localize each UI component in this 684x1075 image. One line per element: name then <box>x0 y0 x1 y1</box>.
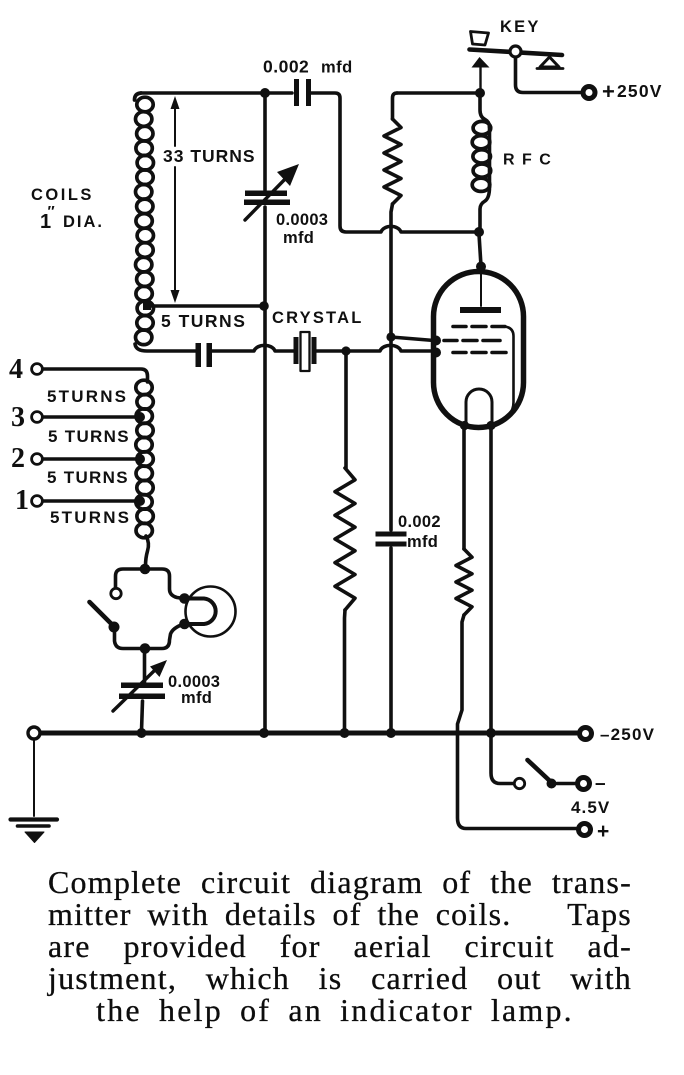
svg-text:4.5V: 4.5V <box>571 798 610 817</box>
svg-text:mfd: mfd <box>321 59 353 77</box>
svg-text:3: 3 <box>11 402 25 433</box>
svg-text:+: + <box>597 820 609 843</box>
svg-text:5 TURNS: 5 TURNS <box>47 468 129 487</box>
svg-text:mfd: mfd <box>407 533 438 551</box>
svg-text:CRYSTAL: CRYSTAL <box>272 309 363 327</box>
svg-text:–250V: –250V <box>600 725 655 744</box>
svg-text:5 TURNS: 5 TURNS <box>161 311 246 331</box>
svg-text:mfd: mfd <box>181 689 212 707</box>
svg-text:0.0003: 0.0003 <box>276 211 328 229</box>
svg-text:0.002: 0.002 <box>263 57 309 77</box>
svg-text:5TURNS: 5TURNS <box>50 508 131 527</box>
svg-text:″: ″ <box>48 203 55 220</box>
svg-text:–: – <box>595 774 606 795</box>
svg-text:DIA.: DIA. <box>63 213 104 231</box>
svg-text:250V: 250V <box>617 81 663 101</box>
svg-text:1: 1 <box>15 485 29 516</box>
svg-text:R F C: R F C <box>503 152 552 169</box>
svg-text:5 TURNS: 5 TURNS <box>48 427 130 446</box>
svg-text:COILS: COILS <box>31 186 94 204</box>
svg-text:4: 4 <box>9 354 23 385</box>
svg-text:+: + <box>602 79 615 104</box>
svg-text:KEY: KEY <box>500 18 541 36</box>
svg-text:5TURNS: 5TURNS <box>47 387 128 406</box>
svg-text:2: 2 <box>11 443 25 474</box>
svg-text:mfd: mfd <box>283 229 314 247</box>
svg-text:0.002: 0.002 <box>398 513 441 531</box>
svg-text:33 TURNS: 33 TURNS <box>163 146 256 166</box>
